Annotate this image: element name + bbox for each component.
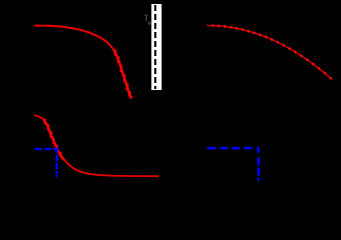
markers: top-right diamonds (211, 24, 332, 80)
curve: top-left gap Delta(T) red line (35, 26, 131, 98)
line: black dashed Tc line inside band (154, 5, 156, 89)
wire: top-left steep overlay (114, 50, 132, 98)
curve: bottom-left sigmoid red line (35, 115, 159, 176)
line: bottom-left blue dashed horizontal (35, 148, 58, 150)
band: white Tc vertical band (151, 4, 161, 90)
arrowhead: bottom-right blue tip (257, 178, 260, 183)
markers: bottom-left beads in steep part (43, 119, 63, 158)
line: bottom-left blue dashed vertical (55, 149, 58, 174)
label Tc (144, 15, 150, 25)
curve: top-right red line with markers (207, 26, 331, 79)
wire: bottom-left steep overlay (43, 119, 64, 160)
markers: top-left curve lower beads (114, 49, 133, 98)
line: bottom-right blue dashed vertical (257, 148, 260, 175)
arrowhead: bottom-left blue tip (55, 175, 58, 178)
line: bottom-right blue dashed horizontal (207, 147, 258, 150)
